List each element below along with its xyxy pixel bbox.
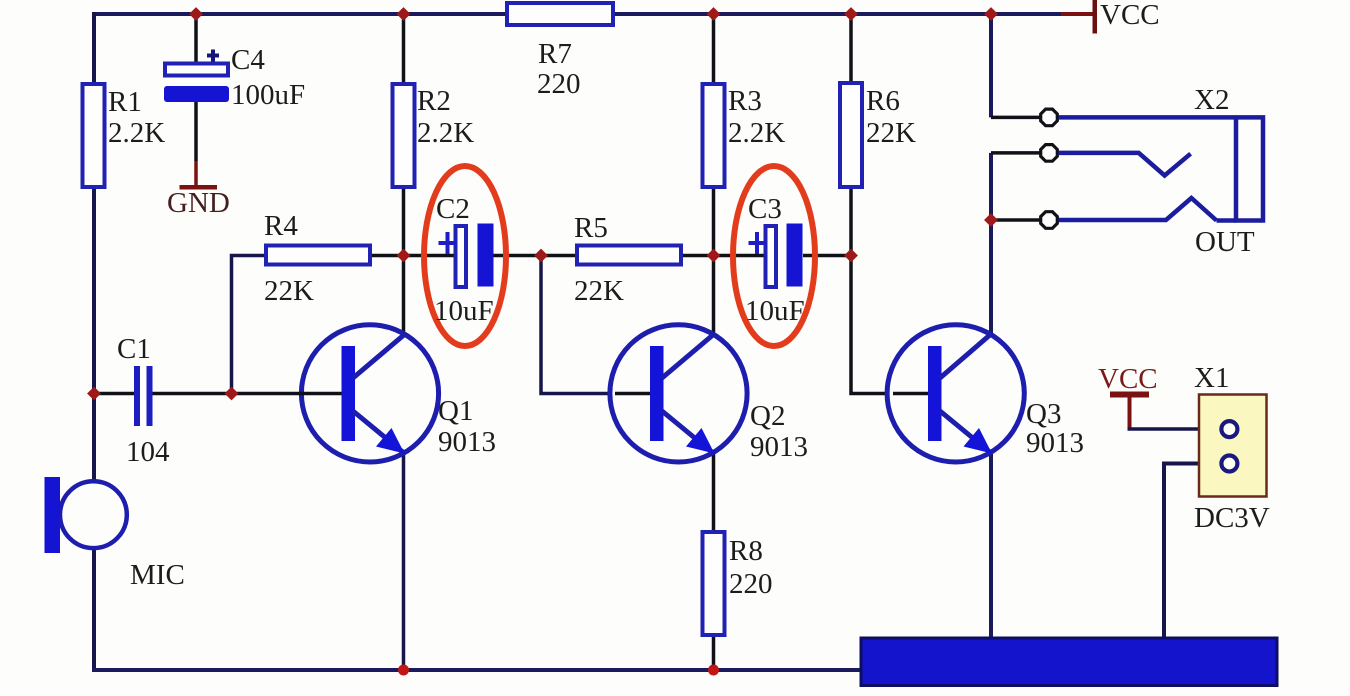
wire GND red stub [194,161,198,185]
label R8 [729,535,773,600]
transistor Q1 [301,325,438,462]
wire X2 stub 2 [991,151,1040,155]
junction Q3 rail [984,7,998,21]
label R1 [108,86,165,149]
label OUT [1195,226,1255,258]
wire VCC to X1 pin1 [1128,427,1220,431]
wire C2 to R5 [493,254,576,258]
VCC symbol near X1 [1110,392,1149,430]
svg-text:9013: 9013 [438,426,496,458]
svg-text:R2: R2 [417,85,451,117]
svg-text:X1: X1 [1194,362,1229,394]
junction X2 feed [984,213,998,227]
wire left vertical rail [92,12,96,670]
label Q1 [438,395,496,458]
svg-text:22K: 22K [866,117,916,149]
wire X1 pin2 to battery bar [1164,464,1219,640]
svg-text:C4: C4 [231,44,265,76]
svg-text:GND: GND [167,187,230,219]
svg-text:Q3: Q3 [1026,398,1061,430]
svg-text:2.2K: 2.2K [108,117,165,149]
svg-text:C2: C2 [436,193,470,225]
svg-text:22K: 22K [574,275,624,307]
wire bottom ground rail [92,668,862,672]
jack X2 body [1059,117,1264,220]
resistor R3 [703,84,725,187]
resistor R2 [393,84,415,187]
wire R2 to Q1 collector [402,187,406,334]
wire Q3 emitter to battery bar [989,453,993,639]
resistor R7 [507,3,613,25]
svg-text:220: 220 [537,68,581,100]
wire R3 top drop [712,14,716,84]
svg-text:220: 220 [729,568,773,600]
junction node C3 left [707,249,721,263]
svg-text:X2: X2 [1194,84,1229,116]
wire Q3 base stub [893,392,928,396]
wire mid row R4 to C2 [370,254,455,258]
label C4 [231,44,305,111]
svg-text:22K: 22K [264,275,314,307]
transistor Q2 [610,325,747,462]
label R5 [574,212,624,307]
terminal circle X1 pin1 [1221,421,1237,437]
junction R6 rail [844,7,858,21]
capacitor C2 [439,224,494,288]
resistor R8 [703,532,725,635]
jack X2 switch middle contact [1059,153,1191,176]
wire R8 to ground rail [712,635,716,670]
wire R3 to Q2 collector [712,187,716,334]
terminal circle X2 pin2 [1041,145,1058,162]
label R4 [264,210,314,307]
svg-text:9013: 9013 [1026,427,1084,459]
terminal circle X1 pin2 [1221,456,1237,472]
svg-text:R3: R3 [728,85,762,117]
resistor R6 [840,83,862,187]
junction node C3 right [844,249,858,263]
wire C3 to R6 node [803,254,851,258]
junction node C2 left [397,249,411,263]
highlight ellipse around C3 [733,166,815,346]
wire VCC red segment [1061,12,1093,16]
label R2 [417,85,474,149]
svg-text:R4: R4 [264,210,298,242]
svg-text:MIC: MIC [130,559,185,591]
label R6 [866,85,916,149]
wire R2 top drop [402,14,406,84]
capacitor C3 [749,224,803,288]
wire X2 stub 1 [991,116,1040,120]
battery bar (blue block) [861,638,1277,686]
wire Q2 base stub [615,392,650,396]
resistor R1 [83,84,105,187]
terminal circle X2 pin3 [1041,212,1058,229]
highlight ellipse around C2 [424,166,506,346]
resistor R5 [577,246,681,265]
svg-text:OUT: OUT [1195,226,1255,258]
capacitor C4 [164,50,229,103]
wire MIC node to C1 [94,392,134,396]
svg-text:104: 104 [126,436,170,468]
resistor R4 [266,246,370,265]
label X1 [1194,362,1229,394]
jack X2 tip contact [1059,198,1217,221]
wire Q2 emitter to R8 [712,453,716,532]
wire R5 to C3 node [681,254,765,258]
wire R6 to Q3 base [851,187,929,394]
wire top VCC rail [94,12,1061,16]
junction R8 ground [708,665,719,676]
svg-text:10uF: 10uF [745,295,805,327]
svg-text:2.2K: 2.2K [417,117,474,149]
microphone MIC [45,477,127,553]
label R3 [728,85,785,149]
svg-text:R6: R6 [866,85,900,117]
wire C4 top drop [194,14,198,64]
label Q3 [1026,398,1084,459]
junction C4 rail [189,7,203,21]
label VCC lower [1098,363,1158,395]
capacitor C1 [134,366,153,426]
svg-text:VCC: VCC [1098,363,1158,395]
connector X2 vertical feed junction [991,116,1040,120]
wire X2 stub 3 [991,218,1040,222]
svg-text:VCC: VCC [1100,0,1160,31]
connector X1 body [1199,395,1267,497]
wire R4 left feedback [232,256,267,394]
svg-text:2.2K: 2.2K [728,117,785,149]
svg-text:9013: 9013 [750,431,808,463]
wire C1 to Q1 base [152,392,342,396]
svg-text:R1: R1 [108,86,142,118]
ground GND bar [180,185,218,190]
label C1 [117,333,170,468]
svg-text:Q2: Q2 [750,400,785,432]
wire C4 to GND black [194,102,198,161]
junction Q1 emitter ground [398,665,409,676]
svg-text:C3: C3 [748,193,782,225]
junction R4 node [225,387,239,401]
wire Q3 collector feed lower [989,153,993,334]
wire Q2 base drop [541,256,652,394]
svg-text:100uF: 100uF [231,79,305,111]
label C2 [434,193,494,327]
svg-text:10uF: 10uF [434,295,494,327]
junction R2 rail [397,7,411,21]
terminal circle X2 pin1 [1041,109,1058,126]
junction node Q2 base [534,249,548,263]
label GND [167,187,230,219]
label R7 [537,38,581,100]
wire Q3 collector vertical [989,14,993,117]
VCC power bar top [1093,0,1098,34]
svg-text:R8: R8 [729,535,763,567]
svg-text:R7: R7 [538,38,572,70]
wire R6 top drop [849,14,853,83]
svg-text:DC3V: DC3V [1194,502,1270,534]
label DC3V [1194,502,1270,534]
label X2 [1194,84,1229,116]
svg-text:Q1: Q1 [438,395,473,427]
label MIC [130,559,185,591]
svg-text:R5: R5 [574,212,608,244]
junction MIC node [87,387,101,401]
svg-text:C1: C1 [117,333,151,365]
label Q2 [750,400,808,463]
transistor Q3 [887,325,1024,462]
wire Q1 emitter down [402,453,406,670]
label VCC top [1100,0,1160,31]
label C3 [745,193,805,327]
junction R3 rail [707,7,721,21]
